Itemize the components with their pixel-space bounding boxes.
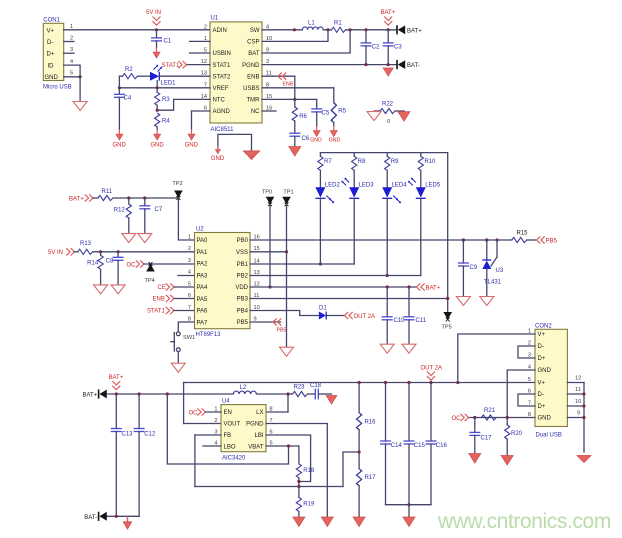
svg-text:R8: R8 [358,159,366,165]
wire BAT+ row to L2 [107,392,234,395]
svg-text:GND: GND [45,75,59,81]
svg-text:V+: V+ [538,332,546,338]
capacitor C12 [134,394,156,516]
LED LED3 [342,178,374,198]
wire CON1 V+ to U1 ADIN [64,29,210,31]
svg-text:V+: V+ [538,381,546,387]
capacitor C4 [114,94,132,129]
svg-text:PB1: PB1 [237,262,249,268]
ground under C7 [138,234,152,243]
svg-text:EN: EN [224,410,232,416]
ground triangle under U1 right [243,151,259,159]
svg-text:ENB: ENB [153,297,165,303]
svg-text:AGND: AGND [213,109,231,115]
svg-text:L2: L2 [240,385,247,391]
resistor R22 with grounds [367,102,410,125]
svg-text:PA6: PA6 [197,309,209,315]
capacitor C8 [106,252,124,285]
svg-text:CON1: CON1 [43,17,60,23]
svg-text:3: 3 [70,47,73,53]
net label PB5 at R15 [537,236,558,244]
svg-text:PB2: PB2 [237,274,249,280]
svg-text:R17: R17 [365,475,377,481]
resistor R18 [296,446,315,497]
svg-text:3: 3 [188,258,191,264]
svg-text:C9: C9 [470,265,478,271]
resistor R13 [75,241,195,254]
svg-text:Dual USB: Dual USB [536,433,562,439]
ground under CON1 [73,102,87,111]
svg-text:C5: C5 [322,111,330,117]
CON2 pin names [538,332,552,422]
test point TP5 [442,312,453,331]
wire U2 PB0 long row [250,238,512,241]
test point TP1 [282,190,293,207]
svg-text:C14: C14 [391,443,403,449]
net label 5V IN (top) [146,10,161,25]
U2 right pin names [235,238,248,326]
wire U1 USBS to R5 [262,88,334,103]
resistor R14 [87,252,103,285]
svg-text:SW1: SW1 [183,335,195,341]
svg-text:OC: OC [452,416,462,422]
svg-text:GND: GND [113,143,127,149]
svg-text:D-: D- [47,40,53,46]
svg-text:PA3: PA3 [197,273,209,279]
ground triangle under C3 junction [383,68,393,76]
node R16/R17 junction [358,450,361,453]
U2 right pin numbers [254,234,260,322]
resistor R11 [93,189,178,200]
wire U1 SW to L1 [262,28,302,31]
LED LED5 [408,178,440,198]
resistor R12 [114,198,132,233]
capacitor C7 [139,198,163,233]
svg-text:9: 9 [577,410,580,416]
svg-text:OUT 2A: OUT 2A [421,366,443,372]
resistor R19 [296,497,315,517]
svg-text:C3: C3 [394,45,402,51]
ground arrow under C1 [153,48,160,59]
svg-text:PB0: PB0 [237,238,249,244]
wire R2 left down to C4 [118,76,120,94]
ground arrow on BAT- row [123,516,131,529]
svg-text:GND: GND [185,143,199,149]
wire capacitor bottoms join [386,503,432,517]
svg-text:R23: R23 [294,385,306,391]
capacitor C3 [383,30,403,65]
svg-text:TP2: TP2 [172,181,182,187]
svg-text:BAT: BAT [248,51,260,57]
net label OUT 2A (bottom) [421,366,443,381]
ground under C10 [380,344,394,353]
capacitor C13 [111,394,133,516]
node C7 top [143,196,146,199]
svg-text:GND: GND [150,143,164,149]
battery terminal BAT- (bottom) [84,512,106,521]
svg-text:R22: R22 [382,102,394,108]
net label BAT+ (middle left) [69,194,93,202]
net label OUT 2A at D1 [345,312,376,320]
inductor L2 [233,385,292,394]
wire U2 PB5 with net label [250,318,286,333]
ground under CON2 shield [577,456,591,463]
ground under VSS [280,347,294,356]
ground arrow + GND under AGND [185,130,199,149]
svg-text:C15: C15 [414,443,426,449]
wire U2 PA3 stub [178,275,195,277]
svg-text:OC: OC [189,410,199,416]
svg-text:VDD: VDD [235,285,248,291]
svg-text:LX: LX [256,410,263,416]
svg-text:LBI: LBI [254,433,263,439]
svg-text:R12: R12 [114,208,126,214]
wire rail corner down to VOUT [184,383,221,424]
svg-text:ADIN: ADIN [213,28,227,34]
resistor R17 [357,452,377,517]
IC U1 AIC8511 [210,16,262,133]
node C3 top [387,28,390,31]
resistor R5 [331,103,346,126]
svg-text:BAT+: BAT+ [381,10,396,16]
node R12 top [127,196,130,199]
capacitor C2 [361,30,381,65]
ground under R20 [501,456,513,466]
svg-text:OUT 2A: OUT 2A [354,314,376,320]
LED LED1 [150,72,210,87]
svg-text:LED3: LED3 [359,182,375,188]
svg-text:C8: C8 [106,258,114,264]
wire TP0 to VDD row [268,204,271,288]
wire CON2 pin6-pin7 bracket [518,394,535,406]
svg-text:1: 1 [188,234,191,240]
svg-text:BAT+: BAT+ [82,392,97,398]
wire U4 VBAT [266,444,299,447]
svg-text:12: 12 [575,375,581,381]
svg-text:C10: C10 [394,318,406,324]
svg-text:PA7: PA7 [197,320,209,326]
capacitor C1 [151,30,172,48]
capacitor C17 [469,418,492,454]
ground under SW1 [171,363,185,372]
svg-text:SW: SW [250,28,260,34]
battery terminal BAT+ (bottom) [82,389,106,398]
wire U1 STAT1 with net label [162,61,211,69]
wire LED2 cathode to PB1 row [319,199,322,266]
wire CON2 pin1 to rail [458,334,535,383]
svg-text:PA2: PA2 [197,262,209,268]
svg-text:R15: R15 [517,230,529,236]
wire TP2 corner down to U2 PA0 [178,198,194,240]
svg-text:LED5: LED5 [425,182,441,188]
wire U2 VDD row with BAT+ label [250,283,441,291]
wire U2 PA7 to SW1 [178,322,194,332]
svg-text:R14: R14 [87,261,99,267]
svg-text:R3: R3 [162,97,170,103]
svg-text:10: 10 [575,399,581,405]
svg-text:11: 11 [575,387,581,393]
svg-text:USBIN: USBIN [213,51,231,57]
wire U2 VSS row [250,250,288,253]
svg-text:BAT+: BAT+ [69,197,84,203]
resistor R4 [155,113,171,130]
capacitor C11 [404,287,427,344]
ground arrow + GND under R5 [329,126,341,143]
ground arrow under R19 [293,517,305,527]
svg-text:C17: C17 [481,435,493,441]
capacitor C6 [289,133,310,146]
ground arrow + GND text under U1 left [211,146,225,162]
IC U4 AIC3420 [221,399,266,462]
svg-text:5: 5 [188,281,191,287]
CON1 pin numbers [70,24,73,77]
resistor R21 [481,408,496,420]
ground under C17 [469,454,481,464]
wire LED supply rail [320,152,447,154]
svg-text:GND: GND [538,368,552,374]
svg-text:LED2: LED2 [325,182,341,188]
capacitor C15 [404,383,426,505]
svg-text:STAT1: STAT1 [162,63,180,69]
wire LED5 cathode to PB2 row [420,199,422,276]
ground under U3 [480,297,494,306]
svg-text:BAT+: BAT+ [426,285,441,291]
U4 left pin names [224,410,241,450]
svg-text:R18: R18 [303,468,315,474]
wire FB feedback line [195,452,359,487]
ground arrow under R17 [353,517,365,527]
svg-text:R10: R10 [424,159,436,165]
node L1/R1 junction [326,28,329,31]
svg-text:LBO: LBO [224,444,236,450]
svg-text:C2: C2 [372,45,380,51]
svg-text:ENB: ENB [283,81,294,87]
svg-text:PA4: PA4 [197,285,209,291]
ground arrow + GND under R4 [150,130,164,149]
resistor R9 [385,153,400,188]
connector CON1 (Micro USB) [43,17,72,90]
U4 left pin numbers [214,407,217,447]
svg-text:C1: C1 [164,39,172,45]
svg-text:R6: R6 [299,114,307,120]
ground arrow under C15 node [403,517,415,527]
svg-text:VOUT: VOUT [224,422,241,428]
wire ENB down to R6 [294,76,296,107]
resistor R16 [357,383,377,453]
svg-text:TL431: TL431 [484,279,502,285]
svg-text:U4: U4 [222,399,230,405]
svg-text:R5: R5 [338,109,346,115]
svg-text:C12: C12 [144,432,156,438]
test point TP2 [172,181,182,200]
resistor R2 [119,67,150,79]
wire CON1 ID to GND junction [64,65,80,77]
wire U1 AGND down [192,111,211,130]
svg-text:AIC8511: AIC8511 [211,127,235,133]
svg-text:R7: R7 [324,159,332,165]
svg-text:USBS: USBS [243,86,259,92]
net label ENB at U2 [153,295,195,303]
svg-text:R9: R9 [391,159,399,165]
svg-text:5V IN: 5V IN [48,250,63,256]
net label CE [158,283,195,291]
ground arrow + GND under C4 [113,130,127,149]
wire output rail OUT 2A [184,381,535,384]
svg-text:GND: GND [329,137,341,143]
CON2 left pin numbers [528,328,531,418]
svg-text:BAT+: BAT+ [109,375,124,381]
net label OC at U4 EN [189,408,222,416]
test point TP0 [262,190,274,207]
wire U2 PB2 row [250,275,421,277]
svg-text:TP5: TP5 [442,325,452,331]
ground arrow + GND under C5 [310,126,322,143]
wire U4 PGND down to ground [266,424,327,518]
wire U4 LBI to R18/R19 node [266,435,311,482]
wire LED1 cathode to VREF row [156,81,158,88]
svg-text:C18: C18 [310,383,322,389]
wire BAT+ to VBAT (down and right) [167,394,288,464]
svg-text:R4: R4 [162,119,170,125]
wire bottom BAT- row [107,515,139,518]
node C10 top [386,285,389,288]
svg-text:0: 0 [387,119,390,125]
svg-text:FB: FB [224,433,232,439]
wire U1 PGND row to BAT- [262,63,397,66]
svg-text:D-: D- [538,344,544,350]
svg-text:AIC3420: AIC3420 [222,455,246,461]
wire CON2 pin2-pin3 bracket [518,346,535,358]
net label 5V IN (middle left) [48,248,75,256]
wire CON2 pin8 row [469,416,535,419]
ground under C11 [402,344,416,353]
ground bracket under U1 [218,134,252,151]
wire U1 VREF row [118,86,210,89]
shunt reference U3 TL431 [482,240,504,296]
ground under C8 [111,285,125,294]
svg-text:LED4: LED4 [392,182,408,188]
node R3/R4/NTC junction [156,109,159,112]
net label OC at CON2 [452,414,469,422]
wire U4 FB down [195,435,221,487]
U1 right pin names [242,28,260,115]
svg-text:R16: R16 [365,419,377,425]
node junction 5V IN on ADIN wire [155,28,158,31]
svg-text:TP0: TP0 [262,190,272,196]
U4 right pin numbers [270,407,273,447]
resistor R6 [292,107,307,133]
svg-text:C16: C16 [436,443,448,449]
svg-text:PGND: PGND [242,63,260,69]
svg-text:2: 2 [70,36,73,42]
wire junction to U1 NTC [157,99,210,110]
svg-text:PB3: PB3 [237,297,249,303]
svg-text:C11: C11 [416,318,427,324]
svg-text:D+: D+ [538,356,546,362]
svg-text:STAT1: STAT1 [213,63,231,69]
svg-text:Micro USB: Micro USB [43,85,72,91]
wire U1 TMR row [262,98,317,100]
ground triangle under C6 [289,147,301,157]
svg-text:2: 2 [204,24,207,30]
svg-text:LED1: LED1 [161,80,177,86]
U4 right pin names [246,410,264,450]
node TMR/R6 junction [293,98,296,101]
ground triangle right of C18 [326,396,337,405]
net label BAT+ (bottom) [109,375,124,390]
svg-text:CON2: CON2 [535,323,552,329]
resistor R10 [418,153,436,188]
svg-text:OC: OC [127,262,137,268]
net label OC at U2 PA2 [127,260,145,268]
node R1 right junction [349,28,352,31]
svg-text:CE: CE [158,285,166,291]
svg-text:STAT2: STAT2 [213,74,231,80]
svg-text:R21: R21 [484,408,496,414]
wire CON1 GND pin [64,75,82,101]
svg-text:5V IN: 5V IN [146,10,161,16]
svg-text:PA0: PA0 [197,238,209,244]
svg-text:R19: R19 [303,501,315,507]
resistor R8 [352,153,367,188]
svg-text:PB5: PB5 [237,320,249,326]
wire U2 PB1 row [250,263,354,265]
battery terminal BAT- (top) [397,60,420,69]
wire U2 PB3 row [250,298,448,300]
diode D1 [319,305,344,319]
svg-text:D1: D1 [319,305,327,311]
node C8 top [117,250,120,253]
svg-text:U1: U1 [211,16,219,22]
svg-text:ENB: ENB [247,74,259,80]
capacitor C16 [426,383,448,505]
U1 left pin names [213,28,231,115]
node C2 top [364,28,367,31]
wire LED4 cathode to PB2 row [386,199,389,277]
svg-text:PB5: PB5 [546,238,558,244]
wire CON2 pin4 to pin8 row [507,370,535,418]
svg-text:ID: ID [48,63,55,69]
svg-text:GND: GND [211,156,225,162]
node C11 top [407,285,410,288]
wire U3 ref connection [491,240,497,266]
svg-text:5: 5 [528,377,531,383]
svg-text:R13: R13 [80,241,92,247]
svg-text:8: 8 [270,407,273,413]
LED LED1 arrows [154,65,162,71]
svg-text:NTC: NTC [213,98,226,104]
capacitor C5 [311,99,330,126]
connector CON2 (Dual USB) [535,323,567,438]
wire BAT tap [262,30,350,53]
U1 right pin numbers [266,24,272,111]
ground under R12 [122,234,136,243]
svg-text:www.cntronics.com: www.cntronics.com [437,510,611,533]
LED LED4 [382,182,407,203]
wire SW1 to ground [177,352,179,363]
capacitor C14 [380,383,402,505]
svg-text:GND: GND [310,137,322,143]
svg-text:L1: L1 [308,21,315,27]
svg-text:2: 2 [214,418,217,424]
svg-text:5: 5 [70,71,73,77]
capacitor C18 [310,383,332,400]
net label STAT1 at U2 [147,307,195,315]
svg-text:TP4: TP4 [145,278,155,284]
svg-text:TMR: TMR [247,98,261,104]
svg-text:V+: V+ [47,28,55,34]
IC U2 HT69F13 [195,227,251,338]
